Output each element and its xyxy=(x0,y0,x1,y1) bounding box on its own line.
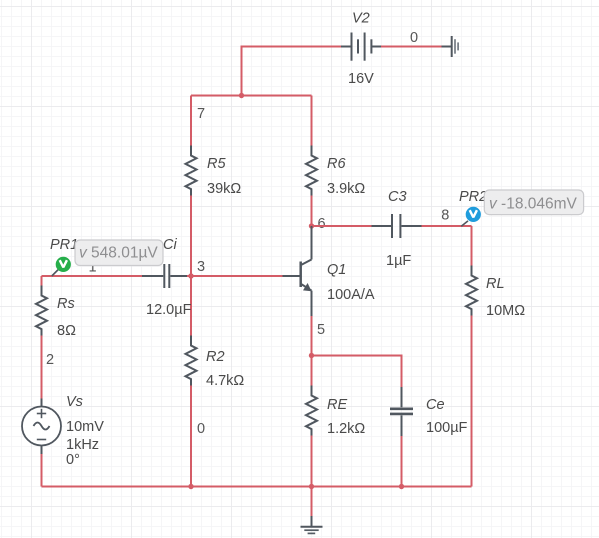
junction dot: node 5 xyxy=(309,353,314,358)
wire: Q1 emitter to node 5 xyxy=(311,316,313,356)
svg-text:39kΩ: 39kΩ xyxy=(207,181,241,197)
svg-text:Ci: Ci xyxy=(163,237,177,253)
ground (top right) xyxy=(442,36,452,57)
svg-text:7: 7 xyxy=(197,106,205,122)
svg-text:0°: 0° xyxy=(66,452,80,468)
wire: bottom rail xyxy=(42,486,472,488)
svg-text:Ce: Ce xyxy=(426,397,445,413)
wire: C3 to node 8 corner xyxy=(422,225,472,227)
probe PR1 tick xyxy=(52,270,59,277)
resistor RL xyxy=(466,266,477,316)
wire: node 5 to RE xyxy=(311,356,313,386)
wire: node 6 to C3 xyxy=(312,225,372,227)
junction dot: node 6 xyxy=(309,223,314,228)
capacitor Ci xyxy=(142,264,187,288)
resistor Rs xyxy=(36,286,47,336)
svg-text:PR1: PR1 xyxy=(50,237,78,253)
svg-text:PR2: PR2 xyxy=(459,189,487,205)
wire: Ci to node 3 to Q1 base xyxy=(187,275,283,277)
svg-text:1µF: 1µF xyxy=(386,253,411,269)
wire: R2 bottom to bottom rail xyxy=(190,386,192,487)
battery V2 xyxy=(341,33,381,61)
svg-text:1.2kΩ: 1.2kΩ xyxy=(327,421,365,437)
svg-text:Q1: Q1 xyxy=(327,262,346,278)
svg-text:12.0µF: 12.0µF xyxy=(146,302,192,318)
wire: node 5 to Ce top xyxy=(312,356,402,388)
wire: rail to ground (bottom) xyxy=(311,487,313,517)
svg-text:16V: 16V xyxy=(348,71,374,87)
wire: top rail y=95.5 xyxy=(191,95,312,97)
junction dot: rail/R2 xyxy=(188,484,193,489)
svg-text:100A/A: 100A/A xyxy=(327,287,375,303)
resistor R5 xyxy=(186,146,197,196)
wire: R5 column top xyxy=(190,96,192,146)
svg-text:10mV: 10mV xyxy=(66,419,104,435)
svg-text:1kHz: 1kHz xyxy=(66,437,99,453)
wire: battery V2 left lead to top rail drop xyxy=(242,47,342,96)
probe PR1 circle xyxy=(56,257,71,272)
junction dot: node 3 xyxy=(188,273,193,278)
source Vs xyxy=(22,399,61,455)
tooltip PR1 xyxy=(75,240,163,266)
wire: battery right lead to ground xyxy=(381,46,442,48)
svg-text:v 548.01µV: v 548.01µV xyxy=(79,245,158,262)
svg-text:8: 8 xyxy=(441,208,449,224)
Vs sine xyxy=(34,423,50,430)
Q1 emitter arrow xyxy=(303,283,312,291)
svg-text:v -18.046mV: v -18.046mV xyxy=(489,196,578,213)
wire: Vs column, input corner down to Rs xyxy=(41,276,43,286)
svg-text:6: 6 xyxy=(318,216,326,232)
svg-text:Vs: Vs xyxy=(66,394,83,410)
junction dot: rail/Ce xyxy=(399,484,404,489)
capacitor Ce xyxy=(390,387,413,436)
svg-text:3: 3 xyxy=(197,259,205,275)
svg-text:8Ω: 8Ω xyxy=(57,323,76,339)
wire: input row from Vs corner to Ci xyxy=(42,275,143,277)
svg-text:R2: R2 xyxy=(206,349,225,365)
svg-text:5: 5 xyxy=(317,322,325,338)
wire: R6 column top xyxy=(311,96,313,146)
svg-text:0: 0 xyxy=(197,421,205,437)
transistor Q1 xyxy=(283,226,312,316)
capacitor C3 xyxy=(372,214,422,238)
wire: R5 bottom to node 3 to R2 xyxy=(190,196,192,336)
svg-text:100µF: 100µF xyxy=(426,420,468,436)
wire: node 8 corner down to RL xyxy=(471,226,473,266)
wire: R6 bottom to node 6 xyxy=(311,196,313,227)
tooltip PR2 xyxy=(484,190,583,215)
junction dot: rail/RE-ground xyxy=(309,484,314,489)
probe PR2 tick xyxy=(461,221,468,226)
svg-text:3.9kΩ: 3.9kΩ xyxy=(327,181,365,197)
svg-text:4.7kΩ: 4.7kΩ xyxy=(206,373,244,389)
svg-text:10MΩ: 10MΩ xyxy=(486,303,525,319)
wire: Ce to bottom rail xyxy=(401,436,403,487)
wire: Rs to Vs source xyxy=(41,336,43,399)
svg-text:0: 0 xyxy=(410,30,418,46)
svg-text:V2: V2 xyxy=(352,11,370,27)
svg-text:R6: R6 xyxy=(327,156,346,172)
ground (bottom) xyxy=(301,516,323,527)
wire: RE to bottom rail xyxy=(311,436,313,487)
svg-text:RL: RL xyxy=(486,276,505,292)
wire: RL to bottom rail xyxy=(471,316,473,487)
svg-text:RE: RE xyxy=(327,397,347,413)
svg-text:R5: R5 xyxy=(207,156,226,172)
svg-text:C3: C3 xyxy=(388,189,407,205)
junction dot: top rail / battery xyxy=(239,93,244,98)
svg-text:Rs: Rs xyxy=(57,296,75,312)
probe PR2 circle xyxy=(466,207,481,222)
wire: Vs to bottom rail xyxy=(41,454,43,487)
resistor R2 xyxy=(186,336,197,386)
resistor RE xyxy=(306,386,317,436)
svg-text:2: 2 xyxy=(46,352,54,368)
resistor R6 xyxy=(306,146,317,196)
